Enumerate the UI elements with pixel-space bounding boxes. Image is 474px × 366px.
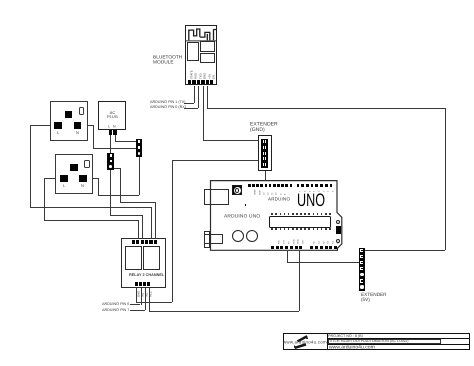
connector A pin 2 — [136, 145, 142, 151]
wire into relay pin3 v — [142, 215, 143, 241]
socket 2 N pin — [79, 175, 87, 183]
wire socket2 L left h — [44, 178, 60, 179]
arduino usb connector — [204, 189, 229, 206]
wire relay IN1 leader v — [141, 285, 142, 305]
title block outer — [283, 333, 470, 349]
extender GND pin 4 — [261, 156, 267, 161]
relay bottom pin 4 (VCC) — [147, 282, 150, 285]
arduino digital pin row1 pin 3 — [256, 184, 259, 187]
socket 1 earth pin — [65, 111, 73, 119]
wire relay VCC right h — [149, 311, 299, 312]
title block row divider 2 — [327, 343, 470, 346]
socket 2 label L — [63, 184, 65, 188]
arduino digital pin row1 pin 1 — [248, 184, 251, 187]
wire arduino 5V to extender-5V h — [287, 262, 360, 263]
extender 5V pin 1 — [360, 249, 363, 252]
bluetooth pin label TXD — [200, 73, 203, 79]
extender GND connector body — [258, 135, 272, 171]
relay top pin 4 — [145, 240, 148, 243]
socket 1 label L — [57, 131, 59, 135]
wire BT +5V right h — [207, 108, 445, 109]
relay top pin 6 — [154, 240, 157, 243]
wire relay IN2 leader h — [130, 310, 144, 311]
wire connB branch down v — [120, 168, 121, 202]
arduino digital pin row1 pin 11 — [290, 184, 293, 187]
wire plug N down v — [115, 135, 116, 142]
arduino analog pin 1 — [310, 246, 313, 249]
extender GND pin 3 — [261, 150, 267, 155]
wire plug L below connB v — [110, 169, 111, 215]
socket 2 earth pin — [70, 164, 78, 172]
AC plug body — [98, 101, 126, 131]
label ARDUINO PIN 1 (TX) — [150, 100, 186, 104]
extender 5V pin 6 — [360, 279, 363, 282]
connector A pin 1 — [136, 139, 142, 145]
arduino digital pin row1 pin 2 — [252, 184, 255, 187]
relay module body — [121, 238, 166, 288]
arduino digital pin row2 pin 1 — [297, 184, 300, 187]
wire right edge down v — [445, 108, 446, 251]
arduino digital pin row1 pin 9 — [281, 184, 284, 187]
title block divider vertical — [327, 333, 328, 349]
label EXTENDER (5V) — [361, 292, 387, 302]
arduino analog pin 4 — [325, 246, 328, 249]
arduino power jack inner — [204, 234, 223, 244]
wire plug L down v — [110, 135, 111, 154]
relay bottom pin label VCC — [150, 291, 153, 297]
wire relay IN1 leader h — [130, 304, 140, 305]
bluetooth antenna meander — [185, 25, 217, 42]
title block row 2 text — [329, 339, 408, 343]
wire up right of relay v — [172, 160, 173, 302]
relay 1 — [125, 246, 142, 270]
arduino digital pin row2 pin 2 — [301, 184, 304, 187]
bluetooth pin 2 — [192, 80, 195, 84]
bluetooth pin 1 — [188, 80, 191, 84]
extender 5V pin 2 — [360, 255, 363, 258]
extender 5V pin 3 — [360, 261, 363, 264]
bluetooth pin label +5V — [209, 73, 212, 78]
wire socket2 N right2 h — [98, 195, 140, 196]
wire plug N to connA pin1 h — [115, 141, 137, 142]
arduino capacitor 2 — [246, 230, 258, 242]
wire BT +5V down v — [207, 86, 208, 109]
arduino text ARDUINO — [268, 197, 290, 202]
connector B pin 1 — [107, 153, 113, 159]
arduino digital pin row1 pin 7 — [273, 184, 276, 187]
arduino black connector right — [336, 226, 342, 234]
title block row 1 text — [328, 334, 363, 338]
title block row divider 1 — [327, 337, 470, 340]
extender GND pin 1 — [261, 139, 267, 144]
relay bottom pin 3 (IN2) — [143, 282, 146, 285]
bluetooth module body — [185, 25, 217, 86]
wire relay GND down v — [136, 285, 137, 302]
arduino digital pin row2 pin 4 — [311, 184, 314, 187]
wire socket2 L right h — [44, 220, 138, 221]
wire socket2 L down v — [44, 178, 45, 220]
relay bottom pin 1 (GND) — [135, 282, 138, 285]
socket 2 L pin — [60, 175, 68, 183]
wire to extender-5V pin1 h — [365, 250, 445, 251]
bluetooth component box lower — [200, 53, 215, 63]
arduino analog pin 5 — [329, 246, 332, 249]
arduino IC chip — [269, 216, 331, 229]
arduino digital pin row1 pin 8 — [277, 184, 280, 187]
relay bottom pin label GND — [138, 290, 141, 296]
wire socket2 N down v — [98, 178, 99, 196]
arduino power pin 3 — [280, 246, 283, 249]
wire up to connA pin3 v — [139, 157, 140, 195]
wire socket1 L to relay h — [30, 207, 152, 208]
arduino digital pin row2 pin 5 — [315, 184, 318, 187]
arduino power pin 5 — [290, 246, 293, 249]
wire into relay pin2 v — [138, 220, 139, 241]
wire BT GND down v — [203, 86, 204, 141]
wire relay VCC down v — [149, 285, 150, 311]
wire arduino 5V down v — [287, 251, 288, 263]
arduino digital pin row2 pin 8 — [330, 184, 333, 187]
wire BT RX label leader h — [184, 108, 198, 109]
bluetooth component box upper — [200, 41, 215, 52]
socket 2 body — [55, 154, 93, 194]
AC plug pin N — [113, 130, 117, 135]
arduino text ARDUINO UNO — [224, 214, 260, 219]
extender 5V pin 5 — [360, 273, 363, 276]
AC plug pin L — [109, 130, 113, 135]
relay bottom pin 2 (IN1) — [139, 282, 142, 285]
wire socket1 N to connA pin2 h — [93, 148, 137, 149]
wire socket1 L down v — [30, 125, 31, 208]
wire socket2 N right h — [85, 178, 98, 179]
wire into relay pin6 v — [155, 202, 156, 241]
connector A pin 3 — [136, 151, 142, 157]
AC plug text — [107, 111, 118, 119]
AC plug label L — [108, 125, 110, 129]
socket 2 label N — [81, 184, 84, 188]
extender 5V connector body — [359, 248, 365, 291]
arduino text UNO — [297, 191, 325, 210]
extender GND pin 5 — [261, 162, 267, 167]
bluetooth pin 5 — [206, 80, 209, 84]
wire BT RXD to TX label leader v — [194, 86, 195, 104]
arduino power pin 1 — [271, 246, 274, 249]
connector B pin 3 — [107, 164, 113, 170]
bluetooth pin label GND — [204, 72, 207, 78]
socket 1 label N — [76, 131, 79, 135]
socket 1 body — [50, 101, 88, 141]
AC plug label N — [113, 125, 116, 129]
arduino analog pin 3 — [320, 246, 323, 249]
relay bottom pin label IN1 — [142, 292, 145, 296]
arduino power pin 6 — [295, 246, 298, 249]
label ARDUINO PIN 7 — [102, 308, 129, 312]
arduino power pin 2 — [276, 246, 279, 249]
wire relay GND right h — [136, 302, 172, 303]
extender 5V pin 4 — [360, 267, 363, 270]
wire extender-GND to arduino v — [265, 171, 266, 185]
label BLUETOOTH MODULE — [153, 55, 182, 65]
socket 1 L pin — [54, 122, 62, 130]
bluetooth pin label STATE — [191, 70, 194, 79]
arduino digital pin row2 pin 7 — [325, 184, 328, 187]
extender GND pin 2 — [261, 144, 267, 149]
arduino uno board outline — [203, 179, 348, 253]
arduino mounting hole 1 — [336, 220, 340, 224]
relay top pin 5 — [149, 240, 152, 243]
arduino digital pin row1 pin 5 — [265, 184, 268, 187]
socket 1 N pin — [74, 122, 82, 130]
arduino power pin 4 — [285, 246, 288, 249]
bluetooth pin 4 — [201, 80, 204, 84]
bluetooth pin label RXD — [195, 73, 198, 79]
relay module label — [129, 273, 164, 277]
logo parallelogram — [283, 334, 327, 349]
bluetooth shield box — [187, 42, 199, 62]
wire relay IN2 leader v — [145, 285, 146, 310]
arduino digital pin row1 pin 6 — [269, 184, 272, 187]
arduino ICSP header — [232, 185, 242, 195]
arduino digital pin row1 pin 10 — [285, 184, 288, 187]
extender 5V pin 7 — [360, 285, 363, 288]
bluetooth pin label EN — [213, 75, 216, 79]
bluetooth pin 3 — [197, 80, 200, 84]
arduino digital pin row1 pin 4 — [260, 184, 263, 187]
wire connB pin3 right h — [114, 168, 121, 169]
label ARDUINO PIN 0 (RX) — [150, 105, 186, 109]
socket 1 switch — [79, 107, 85, 115]
arduino capacitor 1 — [232, 230, 244, 242]
label ARDUINO PIN 6 — [102, 302, 129, 306]
wire socket1 N right h — [81, 125, 93, 126]
label EXTENDER (GND) — [250, 122, 278, 133]
arduino digital pin row2 pin 6 — [320, 184, 323, 187]
tiny mark — [245, 204, 246, 206]
arduino analog pin 2 — [315, 246, 318, 249]
logo text www.arduino4u.com — [283, 340, 327, 345]
arduino power jack outer — [204, 231, 210, 248]
wire into relay pin5 v — [151, 207, 152, 241]
relay 2 — [143, 246, 160, 270]
relay top pin 2 — [136, 240, 139, 243]
wire connB branch right h — [120, 202, 155, 203]
wire socket1 N down v — [93, 125, 94, 148]
wire BT TXD to RX label leader v — [198, 86, 199, 109]
wire BT TX label leader h — [184, 103, 194, 104]
wire to extender-GND pin4 h — [172, 160, 259, 161]
wire socket1 L left h — [30, 125, 57, 126]
arduino power pin 7 — [299, 246, 302, 249]
bluetooth pin 6 — [210, 80, 213, 84]
wire up to arduino VIN v — [299, 251, 300, 311]
wire plug L right h — [110, 215, 142, 216]
arduino analog pin 6 — [334, 246, 337, 249]
relay top pin 1 — [132, 240, 135, 243]
relay top pin 3 — [141, 240, 144, 243]
arduino digital pin row2 pin 3 — [306, 184, 309, 187]
relay bottom pin label IN2 — [146, 292, 149, 296]
title block row 3 text — [329, 345, 375, 350]
connector B pin 2 — [107, 158, 113, 164]
socket 2 switch — [84, 160, 90, 169]
wire BT GND to extender-GND pin1 h — [203, 140, 259, 141]
title block row 2 box — [328, 339, 442, 344]
arduino mounting hole 2 — [336, 239, 340, 243]
